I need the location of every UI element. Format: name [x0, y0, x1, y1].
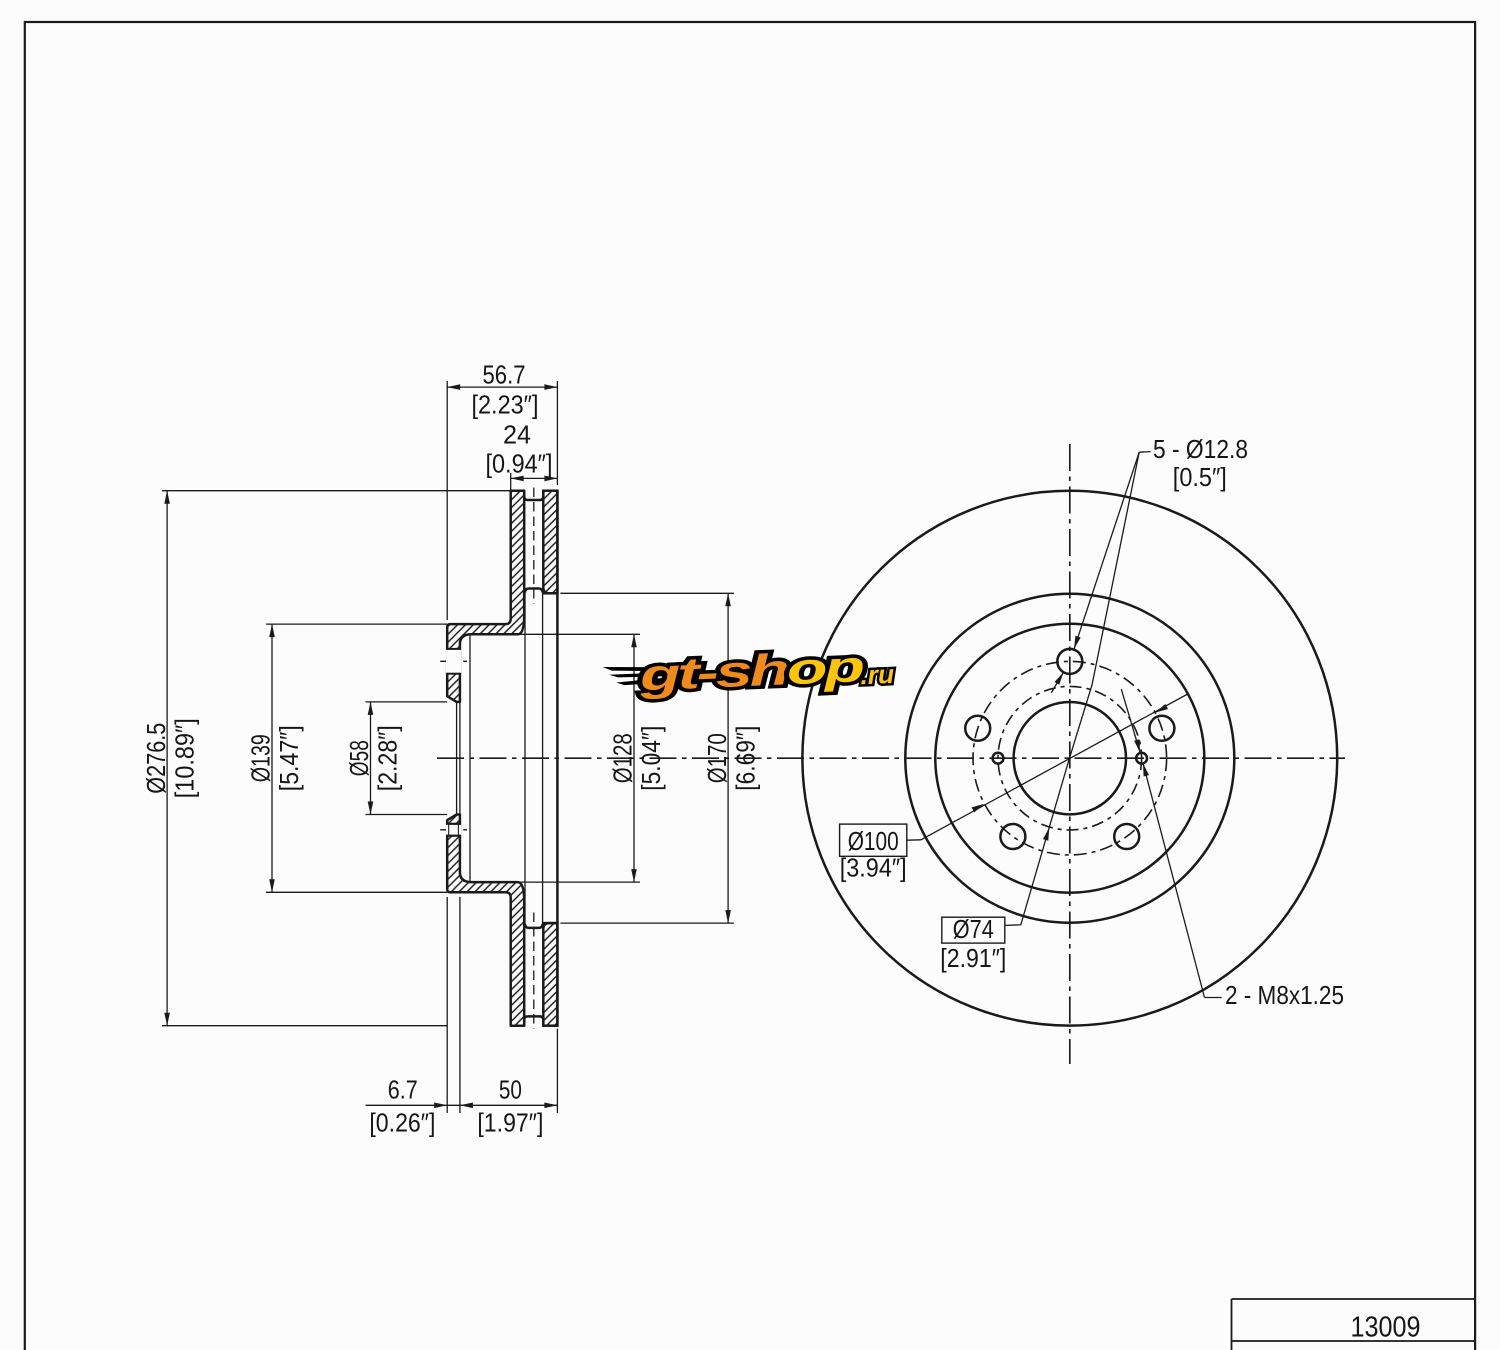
dimension D170 extension lines: [560, 592, 734, 594]
vent slot rounded notch at OD bottom: [524, 1016, 543, 1025]
projected D170 edge / inboard plate outer face: [556, 491, 559, 1026]
svg-text:[1.97″]: [1.97″]: [477, 1108, 543, 1138]
svg-text:[5.47″]: [5.47″]: [274, 725, 304, 791]
dimension D128 line and arrows: [633, 634, 635, 882]
projected vent channel left edge: [524, 592, 526, 925]
svg-text:[6.69″]: [6.69″]: [730, 726, 760, 791]
lug bolt hole 4 (D12.8): [1114, 824, 1139, 849]
section: M8 set screw tapped hole void: [446, 824, 461, 836]
lug bolt hole 5 (D12.8): [1149, 716, 1174, 741]
svg-text:[2.91″]: [2.91″]: [940, 943, 1006, 973]
svg-text:2 - M8x1.25: 2 - M8x1.25: [1225, 980, 1344, 1010]
label D74 box: [942, 917, 1005, 943]
svg-text:Ø128: Ø128: [608, 733, 638, 783]
vent channel hidden centerline top: [533, 488, 535, 605]
dimension 56.7 extension lines: [446, 381, 448, 620]
svg-text:Ø276.5: Ø276.5: [141, 723, 171, 794]
label D100 box: [840, 824, 907, 856]
D100 diameter leader line: [907, 839, 921, 841]
section: inboard friction plate bottom (hatched): [543, 923, 557, 1026]
svg-text:56.7: 56.7: [483, 359, 526, 389]
projected edge line of hat bore D128: [469, 634, 471, 882]
set screw hole centerline tick (section): [440, 829, 467, 831]
set screw hole left (M8): [993, 753, 1004, 764]
projected vent channel right edge: [542, 592, 544, 925]
section: outboard friction plate and hat (hatched): [447, 491, 524, 702]
dimension D58 line and arrows: [370, 702, 372, 815]
dimension D58 extension lines: [366, 701, 448, 703]
svg-text:[5.04″]: [5.04″]: [636, 726, 666, 791]
front view hat D139 circle: [935, 624, 1204, 893]
svg-text:[0.26″]: [0.26″]: [369, 1108, 435, 1138]
inboard plate inner face edge bottom (D170): [543, 923, 557, 928]
dimension 50 line and arrows: [460, 1104, 558, 1106]
dimension D170 line and arrows: [727, 593, 729, 923]
horizontal axis centerline: [437, 757, 1345, 759]
lug bolt hole 2 (D12.8): [965, 716, 990, 741]
dimension 24 extension line: [510, 473, 512, 492]
svg-text:.ru: .ru: [860, 659, 895, 690]
vent channel inner end bottom: [525, 924, 543, 928]
svg-text:6.7: 6.7: [388, 1074, 418, 1104]
svg-text:Ø139: Ø139: [246, 734, 276, 782]
svg-text:Ø74: Ø74: [953, 914, 994, 944]
title block box: [1232, 1298, 1476, 1300]
svg-text:24: 24: [503, 419, 531, 449]
bottom extension lines: [446, 897, 448, 1113]
svg-text:[10.89″]: [10.89″]: [169, 718, 199, 798]
svg-text:Ø170: Ø170: [702, 733, 732, 783]
svg-text:[0.5″]: [0.5″]: [1173, 462, 1227, 492]
second arrow of D12.8 callout at lug hole lower edge: [1051, 672, 1063, 693]
dimension 56.7 line and arrows: [447, 386, 557, 388]
set screw hole right (M8): [1136, 753, 1147, 764]
front view hub bore D58 circle: [1014, 702, 1126, 814]
dimension 24 line and arrows: [511, 477, 558, 479]
svg-text:50: 50: [499, 1074, 522, 1104]
lug bolt hole 3 (D12.8): [1000, 824, 1025, 849]
dimension D139 line and arrows: [271, 624, 273, 892]
combined D74 label leader line through center: [1006, 452, 1140, 925]
svg-text:[2.28″]: [2.28″]: [373, 725, 403, 791]
bolt circle D100 (dash-dot): [973, 661, 1167, 855]
vent channel hidden centerline bottom: [533, 913, 535, 1030]
inboard plate inner face edge top (D170): [543, 588, 557, 593]
front view D170 circle: [905, 594, 1234, 923]
svg-text:13009: 13009: [1351, 1312, 1421, 1344]
svg-text:[0.94″]: [0.94″]: [486, 449, 553, 479]
dimension 6.7 line with outside arrow: [366, 1104, 460, 1106]
lug bolt hole centerline tick (section): [440, 660, 467, 662]
vent channel inner end top: [525, 589, 543, 593]
dimension D276.5 extension lines: [162, 490, 511, 492]
lug bolt hole 1 (D12.8): [1057, 649, 1082, 674]
svg-text:Ø100: Ø100: [848, 826, 899, 856]
front view outer diameter circle: [802, 491, 1337, 1026]
dimension D276.5 line and arrows: [166, 491, 168, 1026]
dimension D128 extension lines: [472, 633, 640, 635]
gt-shop.ru watermark logo: [602, 641, 895, 702]
svg-text:Ø58: Ø58: [344, 740, 374, 776]
svg-text:gt-shop: gt-shop: [637, 642, 864, 700]
vertical centerline of front view: [1069, 444, 1071, 1064]
dimension D139 extension lines: [266, 623, 447, 625]
set screw circle D74 (dash-dot): [998, 686, 1142, 830]
bore exit edge line at flange back face: [459, 702, 461, 815]
section: lug bolt hole void: [446, 649, 461, 674]
bore chamfer inner edge line: [456, 702, 458, 815]
leader for 2-M8x1.25 with arrows through right set screw hole: [1121, 689, 1140, 752]
leader for 5-D12.8 to top lug hole: [1139, 451, 1150, 454]
svg-text:[3.94″]: [3.94″]: [840, 853, 907, 883]
svg-text:[2.23″]: [2.23″]: [472, 390, 539, 420]
section: outboard plate and hat bottom half (hatched): [447, 815, 524, 1026]
section: inboard friction plate top (hatched): [543, 491, 557, 594]
svg-text:5 - Ø12.8: 5 - Ø12.8: [1153, 434, 1248, 464]
vent slot rounded notch at OD top: [524, 491, 543, 500]
